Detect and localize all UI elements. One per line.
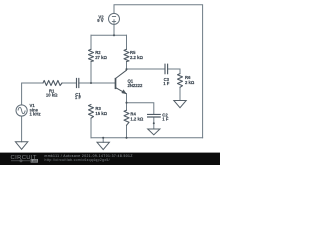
svg-text:1 F: 1 F	[75, 95, 82, 100]
node dot collector	[125, 68, 127, 70]
svg-text:1 kHz: 1 kHz	[30, 112, 41, 117]
wire C1 to base with node	[79, 82, 115, 84]
wire ground tap stem	[102, 138, 104, 143]
node dot base	[90, 82, 92, 84]
svg-text:9 V: 9 V	[97, 18, 104, 23]
node dot emitter	[125, 102, 127, 104]
svg-text:1 F: 1 F	[163, 81, 170, 86]
svg-text:LAB: LAB	[31, 159, 37, 163]
node dot R4 bottom	[125, 137, 127, 139]
wire V1 ground stem	[21, 116, 23, 142]
wire V2 bottom stem	[113, 24, 115, 35]
wire R1 to C1	[62, 82, 77, 84]
node dot V2 bottom	[113, 34, 115, 36]
svg-text:http://circuitlab.com/c6zqq4qp: http://circuitlab.com/c6zqq4qp2gx5/	[45, 158, 110, 162]
wire R3 bottom	[90, 118, 92, 138]
svg-text:R3: R3	[95, 106, 101, 111]
resistor R4 zigzag	[124, 110, 129, 125]
wire R2 top	[90, 35, 92, 49]
svg-text:2N2222: 2N2222	[128, 83, 144, 88]
transistor Q1	[116, 69, 127, 94]
voltage source V2 circle	[109, 13, 120, 24]
resistor R5 zigzag	[124, 49, 129, 61]
resistor R6 zigzag	[178, 74, 183, 88]
footer CircuitLab logo	[11, 155, 39, 163]
svg-text:27 kΩ: 27 kΩ	[95, 55, 107, 60]
resistor R2 zigzag	[89, 49, 94, 61]
ground (V1)	[15, 142, 27, 150]
svg-text:1 F: 1 F	[162, 117, 169, 122]
wire C2 ground stem	[153, 117, 155, 129]
wire R2 bottom to base node	[90, 62, 92, 84]
wire R4 bottom	[126, 125, 128, 138]
wire supply rail	[91, 34, 127, 36]
source V1 sine circle	[16, 105, 27, 116]
wire bottom rail	[91, 137, 203, 139]
svg-text:2 kΩ: 2 kΩ	[185, 80, 195, 85]
node dot ground tap	[102, 137, 104, 139]
svg-text:2.2 kΩ: 2.2 kΩ	[130, 55, 143, 60]
capacitor C3 plates	[165, 64, 168, 75]
wire R6 bottom stem	[179, 87, 181, 100]
wire V1 top to signal	[22, 83, 43, 105]
capacitor C1 plates	[77, 78, 79, 88]
wire V2 top loop to right rail	[114, 5, 203, 138]
footer bar	[0, 153, 220, 165]
wire R5 top	[126, 35, 128, 49]
wire emitter node to C2	[127, 94, 154, 115]
svg-text:15 kΩ: 15 kΩ	[95, 111, 107, 116]
node dot C2 stem	[153, 122, 155, 124]
resistor R3 zigzag	[89, 105, 94, 119]
svg-text:10 kΩ: 10 kΩ	[46, 92, 58, 97]
resistor R1 zigzag	[43, 81, 62, 86]
svg-text:1.2 kΩ: 1.2 kΩ	[130, 116, 143, 121]
wire collector node to C3	[127, 68, 166, 70]
wire R5 bottom to collector node	[126, 62, 128, 70]
footer info text	[45, 154, 133, 162]
ground (bottom rail)	[97, 142, 109, 149]
ground (C2)	[148, 129, 160, 135]
ground (R6)	[174, 101, 186, 108]
wire C3 to R6 top	[168, 69, 180, 74]
capacitor C2 plates	[147, 114, 161, 117]
